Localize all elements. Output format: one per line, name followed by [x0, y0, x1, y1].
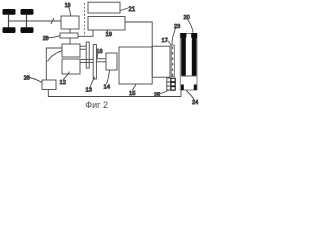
machine lower housing line — [181, 75, 196, 77]
hatched strip 23 — [171, 45, 174, 77]
box 21 (battery) — [88, 2, 120, 13]
wheel rear-right — [21, 27, 34, 33]
dashed control line — [84, 3, 86, 36]
drive line to box 18 — [9, 20, 62, 22]
svg-text:18: 18 — [65, 3, 71, 9]
pointer 26 — [30, 78, 42, 83]
pointer 18 — [69, 8, 71, 16]
engine box lower 12b — [62, 59, 80, 74]
wheel front-left — [3, 9, 16, 15]
lower shaft lines — [80, 58, 93, 60]
svg-text:24: 24 — [192, 100, 198, 106]
svg-text:26: 26 — [24, 76, 30, 82]
connector box28 to engine — [69, 38, 71, 44]
svg-text:28: 28 — [43, 36, 49, 42]
pointer 17 — [167, 41, 171, 46]
connector box18 to box28 — [69, 29, 71, 33]
generator box 15 — [119, 47, 152, 84]
bottom bus wire — [48, 90, 181, 97]
gear bar 1 — [86, 42, 89, 68]
pointer 15 — [133, 85, 137, 91]
engine box upper 12a — [62, 44, 80, 57]
extension housing 17 — [152, 46, 170, 77]
wheel rear-left — [3, 27, 16, 33]
pointer 16 — [96, 54, 98, 58]
svg-text:14: 14 — [104, 85, 111, 91]
box 18 (final drive) — [61, 16, 79, 29]
box 19 (inverter) — [88, 17, 125, 31]
wire engine to control box 26 — [46, 48, 62, 80]
flywheel disc 13 — [93, 45, 96, 80]
pointer 20 — [188, 20, 194, 33]
wheel front-right — [21, 9, 34, 15]
pointer 25 — [159, 90, 169, 93]
curved arrow at engine — [48, 51, 62, 62]
svg-text:20: 20 — [184, 15, 190, 21]
wire box19 bottom stub — [78, 30, 93, 36]
svg-text:21: 21 — [129, 7, 136, 13]
wire 19 to right machine — [125, 22, 152, 46]
pointer 13 — [90, 77, 95, 87]
axle shaft right — [26, 15, 28, 28]
svg-text:19: 19 — [106, 32, 112, 38]
linear machine outer frame — [180, 33, 197, 90]
upper shaft lines — [80, 45, 86, 47]
pointer 12 — [63, 72, 70, 80]
slash mark on drive line — [51, 18, 54, 24]
pointer 23 — [172, 29, 175, 45]
linear machine stator 20 — [181, 33, 197, 76]
svg-text:12: 12 — [60, 80, 66, 86]
coupling box 14 — [106, 53, 117, 70]
pointer 21 — [121, 8, 129, 11]
pointer 19 — [107, 30, 109, 31]
pointer 24 — [186, 91, 194, 101]
axle shaft left — [8, 15, 10, 28]
pointer 28 — [48, 36, 60, 38]
svg-text:Фиг 2: Фиг 2 — [85, 100, 108, 110]
control box 26 — [42, 80, 56, 90]
svg-text:13: 13 — [86, 88, 92, 94]
pointer 14 — [107, 71, 110, 85]
output shaft lines — [96, 58, 106, 60]
bottom magnets — [181, 85, 184, 91]
terminal block 25 — [167, 78, 175, 90]
thin box 28 — [60, 33, 78, 38]
